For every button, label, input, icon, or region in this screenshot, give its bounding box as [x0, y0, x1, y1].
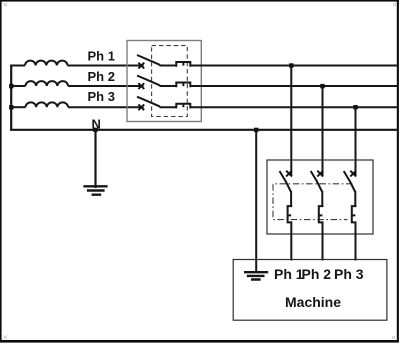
svg-text:Ph 2: Ph 2 [88, 69, 115, 84]
inductor Ph3 [26, 102, 69, 107]
wire S1 blade to contact [160, 65, 177, 67]
breaker B3 blade [344, 171, 355, 192]
breaker B1 blade [280, 171, 291, 192]
switch S1 x-terminal [138, 63, 144, 69]
frame left border [0, 0, 2, 341]
wire drop Ph2 to breaker [322, 86, 324, 176]
contact S3 bumps [176, 104, 190, 109]
svg-text:Ph 3: Ph 3 [334, 266, 364, 282]
wire B2 blade to contact [321, 191, 323, 206]
contact B3 bumps [352, 206, 357, 222]
wire Ph2 left segment [10, 85, 25, 87]
breaker box U2 outline [267, 160, 373, 234]
inductor Ph2 [26, 81, 69, 86]
wire Ph3 output [190, 106, 397, 108]
switch S2 x-terminal [138, 83, 144, 89]
wire S2 blade to contact [160, 85, 177, 87]
junction N-drop [254, 128, 258, 132]
artifact bottom-left [4, 336, 8, 340]
frame bottom border [0, 340, 399, 343]
junction bus-Ph2 [9, 84, 13, 88]
switch box U1 outline [127, 41, 201, 122]
wire Ph2 output [190, 85, 397, 87]
contact S1 bumps [176, 62, 190, 67]
breaker box U2 dash-dot enclosure [273, 184, 353, 220]
wire B1 blade to contact [290, 191, 292, 206]
svg-text:Machine: Machine [285, 294, 341, 310]
breaker B2 blade [311, 171, 322, 192]
wire B2 output to machine [322, 222, 324, 260]
switch S3 blade [137, 97, 160, 107]
switch S1 blade [137, 55, 160, 65]
ground symbol (machine earth) bars [244, 272, 268, 279]
breaker B2 x-terminal [317, 171, 323, 177]
wire B1 output to machine [290, 222, 292, 260]
ground symbol (neutral earth) wire [94, 131, 96, 188]
wire Ph1 output [190, 65, 397, 67]
junction Ph1-drop [289, 63, 293, 67]
svg-text:Ph 1: Ph 1 [274, 266, 304, 282]
wire B3 output to machine [355, 222, 357, 260]
wire B3 blade to contact [354, 191, 356, 206]
junction bus-Ph3 [9, 105, 13, 109]
contact B2 bumps [319, 206, 324, 222]
artifact top-left [3, 3, 7, 6]
artifact top-right [393, 3, 396, 6]
wire S3 blade to contact [160, 106, 177, 108]
wire Ph1 to switch [68, 65, 144, 67]
machine box outline [233, 260, 387, 321]
switch box U1 dashed enclosure [152, 46, 188, 117]
artifact bottom-right [392, 336, 395, 339]
switch S2 blade [137, 76, 160, 86]
wire drop N to machine ground [255, 130, 257, 272]
wire drop Ph3 to breaker [355, 107, 357, 176]
wire Ph2 to switch [68, 85, 144, 87]
junction Ph3-drop [353, 105, 357, 109]
breaker B3 x-terminal [350, 171, 356, 177]
svg-text:Ph 3: Ph 3 [88, 89, 115, 104]
frame right border [397, 0, 399, 342]
wire Ph1 left segment [10, 65, 25, 67]
svg-text:Ph 1: Ph 1 [88, 48, 115, 63]
frame top border [0, 0, 399, 2]
wire N neutral line [10, 129, 397, 131]
wire drop Ph1 to breaker [290, 66, 292, 177]
ground symbol (neutral earth) bars [83, 186, 107, 194]
svg-text:Ph 2: Ph 2 [302, 266, 332, 282]
wire Ph3 to switch [68, 106, 144, 108]
junction Ph2-drop [320, 84, 324, 88]
svg-text:N: N [92, 117, 101, 132]
left neutral bus wire [10, 65, 12, 131]
breaker B1 x-terminal [286, 171, 292, 177]
contact S2 bumps [176, 83, 190, 88]
switch S3 x-terminal [138, 104, 144, 110]
inductor Ph1 [25, 61, 68, 66]
contact B1 bumps [288, 206, 293, 222]
junction N-ground [93, 128, 97, 132]
wire Ph3 left segment [10, 106, 25, 108]
